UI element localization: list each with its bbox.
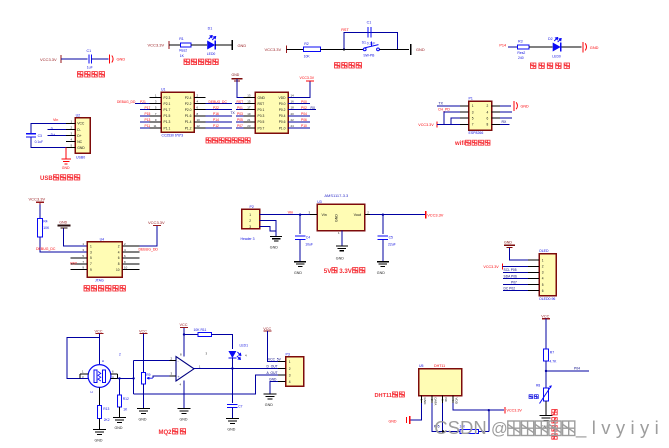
svg-text:GND: GND <box>269 377 277 381</box>
wire + net label P22 <box>206 109 233 111</box>
wire GND to pin1 <box>510 248 528 260</box>
svg-text:S1: S1 <box>362 40 366 44</box>
wire op-amp V+ pin8 <box>183 328 185 357</box>
svg-text:R12: R12 <box>123 397 129 401</box>
svg-text:D_OUT: D_OUT <box>267 364 278 368</box>
svg-text:P0.3: P0.3 <box>258 114 265 118</box>
svg-text:DEBUG_DD: DEBUG_DD <box>139 248 159 252</box>
svg-text:VCC: VCC <box>95 329 103 333</box>
resistor R12 <box>117 395 121 407</box>
ground (C5) <box>377 261 389 263</box>
svg-text:VCC3.3V: VCC3.3V <box>148 220 165 225</box>
svg-text:GND: GND <box>416 47 425 52</box>
wire pin1 (Vin) <box>260 214 310 216</box>
label: reset button <box>335 63 362 68</box>
pin stubs U1 left <box>150 97 162 99</box>
svg-text:9: 9 <box>90 268 92 272</box>
svg-text:P15: P15 <box>145 112 151 116</box>
svg-text:P04: P04 <box>574 367 580 371</box>
svg-text:GND: GND <box>590 45 599 50</box>
pin stubs JTAG right <box>122 245 139 247</box>
pin stubs right chip right side <box>288 97 300 99</box>
svg-text:P06: P06 <box>301 118 307 122</box>
svg-text:P04: P04 <box>301 112 307 116</box>
svg-text:DEBUG_DD: DEBUG_DD <box>117 100 136 104</box>
wire + net label P04 <box>288 115 310 117</box>
svg-text:GND: GND <box>232 73 240 77</box>
svg-text:R4: R4 <box>43 220 47 224</box>
svg-text:P13: P13 <box>145 118 151 122</box>
svg-text:D2: D2 <box>548 37 553 41</box>
wire + net label P01 <box>236 109 244 111</box>
wire junction down <box>488 410 490 431</box>
svg-text:USB: USB <box>40 176 53 182</box>
svg-text:DEBUG_DC: DEBUG_DC <box>36 247 56 251</box>
svg-text:1: 1 <box>542 259 544 263</box>
svg-text:4: 4 <box>289 380 291 384</box>
svg-text:GND: GND <box>95 439 103 443</box>
svg-text:P2.3: P2.3 <box>164 96 171 100</box>
wire DEBUG_DC to pin3 <box>40 250 87 253</box>
svg-text:7: 7 <box>90 262 92 266</box>
label: filter capacitor <box>78 72 105 77</box>
wire + net label P10 <box>288 127 310 129</box>
wire (Vin to pin1, loop to pin5) <box>31 123 66 133</box>
wire VCC pin2 <box>503 265 528 267</box>
LED D1 <box>207 41 215 50</box>
svg-text:4: 4 <box>542 277 544 281</box>
wire pin2 to VCC3.3V <box>139 225 157 246</box>
wire + net label P04 <box>546 370 589 372</box>
svg-text:R1: R1 <box>179 37 184 41</box>
svg-text:NC: NC <box>77 140 82 144</box>
svg-text:2: 2 <box>119 352 121 356</box>
svg-text:H: H <box>91 390 93 394</box>
svg-text:GND: GND <box>270 245 278 249</box>
svg-text:Header 3: Header 3 <box>241 237 255 241</box>
svg-text:D-: D- <box>77 128 81 132</box>
svg-text:P0.4: P0.4 <box>279 114 286 118</box>
svg-text:P1.3: P1.3 <box>164 120 171 124</box>
svg-text:6: 6 <box>118 256 120 260</box>
svg-text:22uF: 22uF <box>388 243 396 247</box>
pin stub U4 pin3 <box>310 214 317 216</box>
resistor R1 <box>180 43 191 47</box>
svg-text:GND: GND <box>377 271 385 275</box>
svg-text:P2: P2 <box>250 205 254 209</box>
svg-text:D1: D1 <box>208 27 213 31</box>
svg-text:U5: U5 <box>419 364 424 368</box>
svg-text:240: 240 <box>518 56 524 60</box>
svg-text:P3: P3 <box>286 353 290 357</box>
junction Vin node <box>299 214 301 216</box>
wire <box>61 58 87 60</box>
svg-text:H: H <box>102 359 104 363</box>
svg-text:GND: GND <box>238 43 247 48</box>
junction (LED/C7 on D_OUT) <box>231 367 233 369</box>
label: MCU interface circuit <box>206 138 250 143</box>
svg-text:RX: RX <box>311 106 316 110</box>
svg-text:1: 1 <box>289 360 291 364</box>
svg-text:R9: R9 <box>146 373 150 377</box>
wire + net label P14 <box>206 121 233 123</box>
svg-text:OLED: OLED <box>539 249 549 253</box>
svg-text:P21: P21 <box>140 100 146 104</box>
svg-text:JTAG: JTAG <box>95 278 104 282</box>
sensor MQ2 <box>88 365 111 388</box>
svg-text:DEBUG_DC: DEBUG_DC <box>209 100 228 104</box>
svg-text:24: 24 <box>291 124 295 128</box>
svg-text:SW-PB: SW-PB <box>363 54 375 58</box>
svg-text:GND: GND <box>389 419 397 423</box>
svg-text:C7: C7 <box>238 404 242 408</box>
wire + net label P06 <box>288 121 310 123</box>
pin stubs MQ2 <box>80 373 88 375</box>
wire <box>478 430 489 432</box>
connector P3 header <box>286 357 304 386</box>
svg-text:U2: U2 <box>76 113 81 117</box>
resistor R7 <box>544 349 549 361</box>
wire U4 GND pin1 <box>341 231 343 246</box>
junction (pin3 on data line) <box>442 430 444 432</box>
junction (to comparator) <box>132 377 134 379</box>
svg-text:AMS1117-3.3: AMS1117-3.3 <box>324 193 349 198</box>
wire to op-amp input / A_OUT rail <box>133 360 135 394</box>
label: light sensor circuit (vertical) <box>552 410 557 440</box>
ground (wifi) <box>513 101 515 111</box>
svg-text:1uF: 1uF <box>87 66 93 70</box>
wire pin5 <box>451 118 460 124</box>
switch S1 SW-PB <box>363 48 366 51</box>
svg-text:LED0: LED0 <box>552 54 561 58</box>
wire + net label P03 <box>236 115 244 117</box>
chip U6 MCU port <box>255 92 288 133</box>
wire + net label P05 <box>236 121 244 123</box>
svg-text:2: 2 <box>487 104 489 108</box>
svg-text:4.7K: 4.7K <box>549 359 557 363</box>
wire GND to pin1 <box>63 229 87 247</box>
svg-text:MQ2: MQ2 <box>159 430 173 436</box>
wire <box>119 407 121 417</box>
wire LED1 to D_OUT line <box>231 358 233 369</box>
svg-text:0.1uF: 0.1uF <box>35 140 43 144</box>
svg-text:3: 3 <box>472 110 474 114</box>
potentiometer R9 <box>141 373 145 385</box>
wire <box>143 334 145 373</box>
wire pin4 VDD <box>453 403 504 410</box>
svg-text:VCC3.3V: VCC3.3V <box>265 47 282 52</box>
ground (power LED) <box>231 40 233 50</box>
svg-text:17: 17 <box>247 106 251 110</box>
svg-text:8: 8 <box>487 123 489 127</box>
svg-text:7: 7 <box>472 123 474 127</box>
wire pin2 to ground <box>500 105 511 107</box>
label: power indicator LED <box>184 59 218 64</box>
svg-text:10K R11: 10K R11 <box>194 328 207 332</box>
svg-text:R2: R2 <box>304 42 309 46</box>
svg-text:P0.5: P0.5 <box>258 120 265 124</box>
wire (pin5 to ground) <box>65 148 67 159</box>
photoresistor R8 <box>543 388 548 401</box>
svg-text:RST: RST <box>341 28 349 32</box>
svg-text:C1: C1 <box>367 20 372 24</box>
svg-text:P05: P05 <box>237 118 243 122</box>
pin stubs OLED <box>528 259 539 261</box>
svg-text:GND: GND <box>258 96 266 100</box>
svg-text:22: 22 <box>291 118 295 122</box>
svg-text:10: 10 <box>124 266 128 270</box>
svg-text:@: @ <box>491 420 508 438</box>
ground (P3) <box>263 393 276 395</box>
svg-text:SCL P05: SCL P05 <box>504 268 517 272</box>
wire <box>529 46 553 48</box>
svg-text:GND: GND <box>115 426 123 430</box>
svg-text:P14: P14 <box>499 44 506 48</box>
ground (filter cap) <box>109 55 111 64</box>
chip U2 USB socket <box>75 118 90 153</box>
wire R12 tap <box>119 378 121 395</box>
svg-text:6: 6 <box>542 289 544 293</box>
svg-text:GND: GND <box>504 240 512 244</box>
svg-text:VCC3.3V: VCC3.3V <box>300 76 315 80</box>
svg-text:C3: C3 <box>38 134 42 138</box>
svg-text:CC2530 6*6*3: CC2530 6*6*3 <box>162 134 184 138</box>
resistor R4 <box>38 218 43 237</box>
ground (potentiometer) <box>137 408 150 410</box>
wire + net label P17 <box>140 109 150 111</box>
svg-text:GND: GND <box>335 214 339 222</box>
junction (VDD node) <box>488 409 490 411</box>
LED D2 <box>553 43 561 52</box>
svg-text:LED1: LED1 <box>240 344 249 348</box>
svg-text:VCC3.3V: VCC3.3V <box>427 212 444 217</box>
wire pin4 <box>500 111 512 113</box>
wire + net label P07 <box>236 127 244 129</box>
ground (network LED) <box>582 42 584 53</box>
resistor R5 10K (pull-up) <box>460 429 478 433</box>
wire D- <box>48 129 67 131</box>
wire sensor output <box>118 377 134 379</box>
wire <box>39 205 41 219</box>
pin stubs DHT11 (bottom) <box>420 396 422 404</box>
wire + net label P15 <box>140 115 150 117</box>
wire <box>143 384 145 408</box>
svg-text:Vin: Vin <box>322 213 327 217</box>
junction (RST node) <box>343 48 345 50</box>
svg-text:GND: GND <box>139 417 147 421</box>
junction (R11 tap) <box>183 333 185 335</box>
svg-text:P0.1: P0.1 <box>258 108 265 112</box>
op-amp U7 comparator <box>176 357 194 382</box>
svg-text:U3: U3 <box>317 200 322 204</box>
svg-text:USB0: USB0 <box>76 155 85 159</box>
svg-text:P0.6: P0.6 <box>279 120 286 124</box>
svg-text:23: 23 <box>247 124 251 128</box>
svg-text:VCC3.3V: VCC3.3V <box>148 43 165 48</box>
svg-text:SDA P06: SDA P06 <box>504 274 518 278</box>
wire VCC to pin1 <box>268 331 278 362</box>
wire + net label DEBUG_DD P21 <box>135 103 150 105</box>
pin stubs U2 <box>66 122 75 124</box>
svg-text:3: 3 <box>249 225 251 229</box>
svg-text:RST: RST <box>70 262 77 266</box>
svg-text:P1.7: P1.7 <box>164 108 171 112</box>
svg-text:GND: GND <box>227 427 235 431</box>
ground (C7) <box>226 418 239 420</box>
wire <box>92 58 109 60</box>
svg-text:P02: P02 <box>301 106 307 110</box>
junction (sensor out) <box>118 377 120 379</box>
svg-text:VCC3.3V: VCC3.3V <box>483 265 499 269</box>
wire to R11 <box>184 334 198 336</box>
svg-text:3: 3 <box>90 250 92 254</box>
svg-text:3: 3 <box>542 271 544 275</box>
svg-text:15: 15 <box>247 100 251 104</box>
ground (C4) <box>294 261 306 263</box>
svg-text:P16: P16 <box>213 112 219 116</box>
svg-text:2K2: 2K2 <box>104 418 110 422</box>
svg-text:R7: R7 <box>550 351 554 355</box>
ground (header P2) <box>270 235 282 237</box>
ground (DHT11) <box>409 416 411 424</box>
svg-text:P00: P00 <box>301 100 307 104</box>
svg-text:RX: RX <box>502 120 508 124</box>
wire pin4 to ground <box>270 382 278 394</box>
wire sensor bottom <box>99 387 101 405</box>
svg-text:10K: 10K <box>304 55 311 59</box>
svg-text:P12: P12 <box>213 124 219 128</box>
wire <box>99 419 101 430</box>
svg-text:8: 8 <box>118 262 120 266</box>
capacitor C7 <box>231 369 233 404</box>
ground (R13) <box>93 429 106 431</box>
pin stubs wifi right <box>492 105 501 107</box>
ground (light sensor) <box>540 415 553 417</box>
svg-text:R13: R13 <box>103 407 109 411</box>
svg-text:GND: GND <box>117 57 126 62</box>
wire RST <box>235 103 244 105</box>
svg-text:GND: GND <box>521 104 530 108</box>
LED LED1 <box>228 351 236 358</box>
pin stubs U1 right <box>194 97 206 99</box>
svg-text:6: 6 <box>487 117 489 121</box>
wire + net label P07 <box>503 284 528 286</box>
svg-text:4: 4 <box>118 250 120 254</box>
svg-text:Vout: Vout <box>354 213 361 217</box>
pin stubs wifi left <box>460 105 469 107</box>
svg-text:P1.1: P1.1 <box>164 126 171 130</box>
wire + net label SDA <box>503 277 528 279</box>
net label VCC3.3V (DHT11) <box>504 407 506 413</box>
svg-text:10: 10 <box>197 118 201 122</box>
wire + net label P02 RX <box>288 109 316 111</box>
svg-text:P03: P03 <box>237 112 243 116</box>
wire + net label DC <box>503 290 528 292</box>
svg-text:P10: P10 <box>301 124 307 128</box>
svg-text:P01: P01 <box>237 106 243 110</box>
capacitor C3 <box>26 133 36 135</box>
chip U3 JTAG header <box>87 242 122 278</box>
wire <box>169 44 180 46</box>
svg-text:U1: U1 <box>161 88 166 92</box>
svg-text:VCC: VCC <box>541 314 549 318</box>
wire D+ <box>48 135 67 137</box>
svg-text:GND: GND <box>294 271 302 275</box>
svg-text:GND: GND <box>180 417 188 421</box>
wire <box>320 48 363 50</box>
svg-text:CSDN: CSDN <box>434 417 486 438</box>
svg-text:VCC: VCC <box>263 327 271 331</box>
wire <box>286 48 303 50</box>
svg-text:VCC: VCC <box>180 323 188 327</box>
wire + net label P00 <box>288 103 310 105</box>
svg-text:3.3V: 3.3V <box>339 268 353 275</box>
pin stubs right chip left side <box>244 97 256 99</box>
svg-text:P11: P11 <box>145 124 151 128</box>
svg-text:D+: D+ <box>77 134 81 138</box>
svg-text:P2.2: P2.2 <box>185 102 192 106</box>
svg-text:C1: C1 <box>87 49 92 53</box>
svg-text:10K: 10K <box>43 226 50 230</box>
svg-text:P2.0: P2.0 <box>185 108 192 112</box>
net label VCC3.3V (regulator output) <box>425 211 427 218</box>
svg-text:Res2: Res2 <box>517 51 525 55</box>
svg-text:VCC3.3V: VCC3.3V <box>29 196 46 201</box>
svg-text:2: 2 <box>118 244 120 248</box>
wire D_OUT (op-amp output to header) <box>194 368 278 370</box>
svg-text:P1.4: P1.4 <box>185 120 192 124</box>
wire loop left <box>67 337 100 378</box>
chip U1 CC2530 header <box>161 92 194 132</box>
wire Vout <box>370 214 426 216</box>
svg-text:U4: U4 <box>100 238 105 242</box>
svg-text:C5: C5 <box>389 236 393 240</box>
ground (U4) <box>336 245 348 247</box>
svg-text:A_OUT: A_OUT <box>267 371 278 375</box>
svg-text:DC P02: DC P02 <box>504 287 516 291</box>
svg-text:10uF: 10uF <box>305 243 313 247</box>
wire R11 to LED1 <box>212 335 233 350</box>
resistor R11 <box>198 333 212 337</box>
svg-text:21: 21 <box>247 118 251 122</box>
junction Vout node <box>382 214 384 216</box>
wire <box>215 44 231 46</box>
svg-text:P07: P07 <box>237 124 243 128</box>
svg-text:GND: GND <box>265 403 273 407</box>
svg-text:ESP8266: ESP8266 <box>469 131 484 135</box>
resistor R2 <box>303 47 320 51</box>
svg-text:P2.1: P2.1 <box>164 102 171 106</box>
wire <box>379 48 409 50</box>
svg-text:VDD: VDD <box>279 96 287 100</box>
svg-text:1: 1 <box>472 104 474 108</box>
resistor R3 <box>517 45 529 49</box>
svg-text:3: 3 <box>289 373 291 377</box>
label: network indicator LED <box>531 63 570 68</box>
svg-text:19: 19 <box>247 112 251 116</box>
wire + net label P16 <box>206 115 233 117</box>
svg-text:P1.6: P1.6 <box>185 114 192 118</box>
capacitor C2 <box>367 27 369 37</box>
svg-text:P14: P14 <box>213 118 219 122</box>
svg-text:11: 11 <box>153 124 156 128</box>
wire pin1 to ground <box>411 403 422 420</box>
wire + net label SCL <box>503 271 528 273</box>
watermark studio name (CJK) <box>508 421 575 436</box>
svg-text:16: 16 <box>291 100 295 104</box>
wire <box>545 361 547 388</box>
svg-text:10: 10 <box>116 268 120 272</box>
